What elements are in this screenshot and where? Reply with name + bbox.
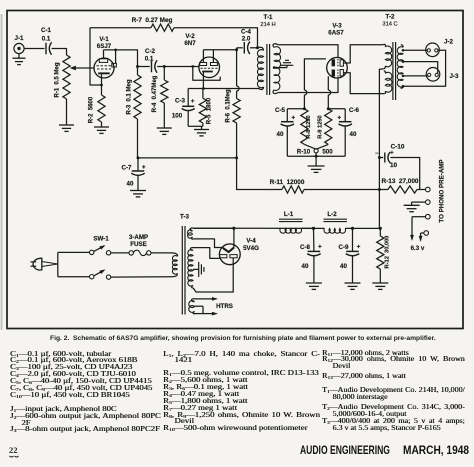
resistor R-8 1250 <box>301 109 308 145</box>
junction L-1 L-2 / C-8 <box>312 227 315 230</box>
svg-text:R-1 0.5 Meg: R-1 0.5 Meg <box>55 62 61 97</box>
V-3 plate 1 wire to T-2 primary top <box>343 45 383 63</box>
svg-text:C-8: C-8 <box>300 244 311 251</box>
wire 5V winding to B+ junction <box>194 227 234 229</box>
svg-text:R-5 1800: R-5 1800 <box>207 97 213 124</box>
svg-text:100: 100 <box>172 113 183 120</box>
svg-text:R-7 0.27 Meg: R-7 0.27 Meg <box>132 17 173 24</box>
svg-text:40: 40 <box>350 131 357 138</box>
svg-text:40: 40 <box>340 263 347 270</box>
T-1 secondary coil <box>273 44 278 48</box>
T-2 primary coil <box>383 44 386 46</box>
tube V-4 5V4G rectifier <box>219 244 240 265</box>
svg-text:C-5: C-5 <box>275 107 286 114</box>
T-1 secondary center tap to ground <box>274 67 287 69</box>
figure caption <box>50 335 436 342</box>
svg-text:+: + <box>337 115 341 122</box>
wire R-6 top to C-4 <box>237 47 243 49</box>
svg-text:C-9: C-9 <box>339 244 350 251</box>
svg-text:T-2: T-2 <box>386 14 395 21</box>
svg-text:V-2: V-2 <box>185 33 195 40</box>
svg-text:R-9 1250: R-9 1250 <box>317 115 323 138</box>
svg-text:C-6: C-6 <box>349 107 360 114</box>
feedback wire from R-7 to V-1 cathode <box>90 28 102 85</box>
parts list column 2 <box>163 352 320 434</box>
svg-text:+: + <box>318 244 322 251</box>
ground for T-1 center tap (inverted) <box>286 65 288 67</box>
screen tab of V-1 <box>112 63 117 67</box>
T-1 primary coil <box>258 47 264 50</box>
resistor R-3 0.1 Meg <box>137 67 139 76</box>
tube V-2 6N7 <box>199 57 220 78</box>
wire switch to fuse <box>111 252 129 254</box>
capacitor C-2 0.1 <box>151 61 153 73</box>
svg-text:3-AMP: 3-AMP <box>129 234 148 241</box>
wire B+ rail vertical from T-2 center tap <box>379 69 383 229</box>
resistor R-9 1250 <box>325 109 332 145</box>
wire J-1 to C-1 <box>24 48 44 50</box>
T-3 6.3 volt heater winding <box>192 299 195 302</box>
svg-text:10: 10 <box>390 162 398 169</box>
svg-text:R-3 0.1 Meg: R-3 0.1 Meg <box>127 79 133 114</box>
potentiometer R-10 500 wiper <box>314 149 318 153</box>
wire R-6 bus to R-11 <box>237 158 282 190</box>
T-2 secondary coil with taps <box>401 45 403 48</box>
T-3 high voltage winding <box>190 248 193 251</box>
capacitor C-10 10 <box>379 157 383 159</box>
tube V-1 6SJ7 <box>94 58 114 78</box>
wire C-2 to V-2 grid <box>157 66 199 68</box>
wire main B+ line from rectifier <box>194 227 314 229</box>
parts list column 3 <box>322 351 465 433</box>
T-3 primary coil <box>172 256 177 275</box>
svg-text:R-10: R-10 <box>297 149 311 156</box>
capacitor C-8 40 <box>313 228 315 251</box>
svg-text:+: + <box>191 98 195 105</box>
wire HV top to V-4 plate 1 <box>193 248 220 259</box>
svg-text:R-8 1250: R-8 1250 <box>306 115 312 138</box>
resistor R-2 5600 <box>98 95 105 122</box>
resistor R-6 0.1 Meg with hop over cathode wire <box>236 50 238 86</box>
svg-text:+: + <box>390 151 394 157</box>
wire HV bottom to V-4 plate 2 <box>193 258 233 292</box>
svg-text:SW-1: SW-1 <box>93 236 109 243</box>
svg-text:R-12 30,000: R-12 30,000 <box>385 236 391 269</box>
wire B+ bus from R-3 <box>138 157 237 159</box>
ground for R-12 <box>372 282 388 284</box>
svg-text:6AS7: 6AS7 <box>328 30 344 37</box>
svg-text:V-4: V-4 <box>246 238 256 245</box>
wire T-1 secondary bottom to V-3 grid 2 <box>278 78 338 93</box>
jack J-1 <box>14 43 24 53</box>
svg-text:V-3: V-3 <box>332 23 342 30</box>
V-2 plate wire <box>203 49 236 51</box>
ground for J-1 <box>18 54 20 59</box>
svg-text:40: 40 <box>277 131 284 138</box>
svg-text:J-3: J-3 <box>450 73 460 80</box>
ground for C-3 R-5 <box>201 126 203 129</box>
wire T-1 secondary top to V-3 grid 1 <box>278 45 338 58</box>
T-3 core <box>181 226 183 315</box>
capacitor C-7 40 <box>137 158 139 171</box>
wire bottom AC to T-3 <box>111 273 178 277</box>
wire T-2 tap to J-2 left pin <box>403 49 427 51</box>
page left edge shading <box>1 14 3 330</box>
wire C-2 link <box>138 66 150 68</box>
V-1 plate wire to R-3 / C-2 <box>104 50 138 67</box>
resistor R-11 12000 <box>282 186 304 193</box>
T-1 core <box>266 44 268 95</box>
wire C-4 to T-1 primary <box>250 47 258 49</box>
capacitor C-5 40 <box>287 108 304 110</box>
T-2 core <box>392 42 394 100</box>
resistor R-7 0.27 Meg <box>151 24 174 31</box>
svg-text:FUSE: FUSE <box>130 241 147 248</box>
page number <box>9 445 18 455</box>
V-2 grid box wire <box>193 67 220 81</box>
svg-text:−: − <box>375 151 379 157</box>
capacitor C-6 40 <box>328 108 345 110</box>
jack J-3 8 ohm output <box>426 68 440 82</box>
svg-text:6.3 v: 6.3 v <box>411 245 425 252</box>
V-3 cathode 2 wire to R-9 <box>327 76 329 90</box>
svg-text:0.1: 0.1 <box>42 36 51 43</box>
svg-text:C-10: C-10 <box>391 144 405 151</box>
svg-text:V-1: V-1 <box>99 36 109 43</box>
svg-text:R-11 12000: R-11 12000 <box>270 179 305 186</box>
ground for C-7 <box>130 190 146 192</box>
wire bias bus <box>287 155 345 157</box>
terminal 2 ground <box>426 200 431 205</box>
wire T-2 tap to J-3 left pin <box>403 75 428 77</box>
wire C-1 to R-1 <box>52 49 67 56</box>
svg-text:HTRS: HTRS <box>216 303 233 310</box>
wire C-10 to terminal 1 <box>390 158 419 190</box>
capacitor C-9 40 <box>352 228 354 251</box>
wires plug to switch <box>42 262 58 267</box>
svg-text:+: + <box>357 244 361 251</box>
svg-text:J-2: J-2 <box>444 39 454 46</box>
capacitor C-1 0.1 <box>45 43 47 55</box>
T-3 5 volt winding <box>190 228 193 231</box>
footer date <box>403 445 469 457</box>
wire T-2 tap to J-3 right pin <box>403 62 438 74</box>
terminal 3 6.3v <box>426 214 431 219</box>
svg-text:+: + <box>142 164 146 171</box>
ground for C-8 <box>306 282 322 284</box>
parts list column 1 <box>10 352 161 435</box>
svg-text:C-7: C-7 <box>122 165 133 172</box>
wiper arrow of R-1 to V-1 grid <box>74 67 95 69</box>
wire 5V winding to V-4 filament left <box>194 239 224 248</box>
resistor R-1 0.5 Meg volume control <box>63 55 70 99</box>
ground for R-10 <box>315 156 317 166</box>
V-3 plate 2 wire to T-2 primary bottom <box>343 73 384 94</box>
svg-text:R-13 27,000: R-13 27,000 <box>382 178 419 185</box>
wire R-11 to B+ rail <box>304 189 379 191</box>
V-2 cathode wire to C-3 R-5 and T-1 <box>202 72 204 88</box>
svg-text:L-2: L-2 <box>327 211 337 218</box>
capacitor C-4 2.0 <box>243 42 245 54</box>
terminal 4 6.3v <box>424 231 429 236</box>
svg-text:T-1: T-1 <box>264 14 273 21</box>
svg-text:C-2: C-2 <box>145 48 156 55</box>
resistor R-4 0.47 Meg <box>163 67 165 81</box>
ground for terminal 2 <box>411 202 413 205</box>
svg-text:40: 40 <box>302 263 309 270</box>
svg-text:+: + <box>291 115 295 122</box>
svg-text:L-1: L-1 <box>284 211 294 218</box>
svg-text:6N7: 6N7 <box>184 40 196 47</box>
wire R-7 to C-4 junction <box>174 28 258 48</box>
svg-text:C-1: C-1 <box>41 27 52 34</box>
svg-text:TO PHONO PRE-AMP: TO PHONO PRE-AMP <box>439 159 446 222</box>
resistor R-5 1800 <box>199 98 206 123</box>
wire fuse to T-3 primary <box>151 253 178 256</box>
resistor R-12 30,000 <box>379 228 381 236</box>
svg-text:214 H: 214 H <box>260 22 275 28</box>
svg-text:C-3: C-3 <box>175 97 186 104</box>
AC plug <box>33 258 42 270</box>
wire B+ junction to V-4 filament right <box>233 228 235 247</box>
V-3 cathode 1 wire to R-8 <box>304 59 326 90</box>
svg-text:R-4 0.47Meg: R-4 0.47Meg <box>152 75 158 112</box>
svg-text:C-4: C-4 <box>241 29 252 36</box>
border frame <box>7 11 463 329</box>
svg-text:R-6 0.1Meg: R-6 0.1Meg <box>226 89 232 123</box>
heater arrow 1 <box>195 298 217 300</box>
capacitor C-3 100 electrolytic <box>187 89 189 107</box>
ground for C-9 <box>345 282 361 284</box>
ground for R-1 <box>59 124 74 126</box>
wire T-2 bottom to J-2 right pin <box>403 50 446 86</box>
svg-text:6SJ7: 6SJ7 <box>97 43 112 50</box>
ground for R-4 <box>157 127 172 129</box>
page number squiggles <box>10 456 19 457</box>
svg-text:J-1: J-1 <box>15 35 25 42</box>
svg-text:T-3: T-3 <box>180 214 189 221</box>
svg-text:R-2 5600: R-2 5600 <box>89 96 95 123</box>
ground for R-2 <box>94 126 109 128</box>
svg-text:0.1: 0.1 <box>145 56 154 63</box>
svg-text:500: 500 <box>322 149 333 156</box>
svg-text:2.0: 2.0 <box>242 36 251 43</box>
resistor R-13 27,000 <box>379 189 388 191</box>
terminal 1 to phono pre-amp <box>426 187 431 192</box>
svg-text:314 C: 314 C <box>382 22 397 28</box>
T-3 HV center tap ground <box>193 268 198 270</box>
V-1 cathode wire <box>101 74 103 95</box>
footer magazine name <box>300 445 390 457</box>
svg-text:40: 40 <box>127 181 134 188</box>
wire R-7 top line <box>90 27 151 29</box>
tube V-3 6AS7 <box>327 57 348 78</box>
heater arrow 2 <box>194 313 204 315</box>
svg-text:5V4G: 5V4G <box>243 245 259 252</box>
jack J-2 600 ohm output <box>426 43 440 57</box>
